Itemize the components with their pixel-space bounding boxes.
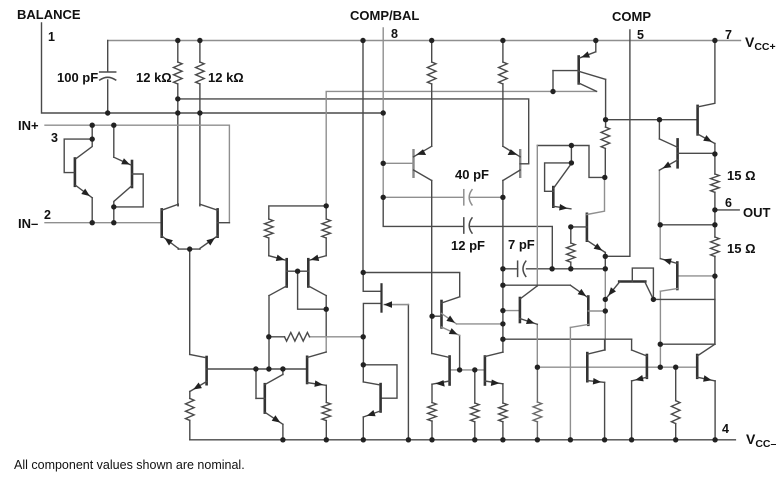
transistor Q11 diode NPN [363, 382, 380, 417]
node: VCC- rail junction x=604.6 [602, 437, 607, 442]
resistor R5 cross-coupling [285, 333, 310, 342]
node: junction (268.9,369) [266, 366, 271, 371]
capacitor C4 7 pF [517, 261, 519, 276]
node: VCC- rail junction x=570.4 [568, 437, 573, 442]
node: balance net junction x=383.2 [381, 110, 386, 115]
node: junction (459.6,369.9) [457, 367, 462, 372]
wire: JFET source down to horizontal-R node and QF node [363, 303, 381, 364]
wire: QP collector vertical down to y=344.2 node and base rail dot [659, 291, 661, 367]
wire: R16 base-node resistor lead to rail [675, 367, 677, 440]
resistor R17 base node [533, 402, 542, 422]
wire: pin 8 node stub down to 12pF line [383, 197, 464, 226]
transistor Q16 PNP [570, 285, 605, 327]
resistor R12 tail emitter [186, 398, 195, 420]
capacitor C3 12 pF [463, 218, 465, 233]
wire: Q25 emitter vertical to 15ohm top [714, 144, 716, 257]
resistor R11 15 ohm bottom [711, 237, 720, 257]
wire: x=537 vertical from y=145.5 down to Q15 collector joint [536, 146, 538, 286]
node: junction (282.9,369) [280, 366, 285, 371]
svg-text:2: 2 [44, 208, 51, 222]
node: junction (383.2,163.3) [381, 161, 386, 166]
transistor Q4 input PNP [200, 204, 230, 249]
node: VCC- rail junction x=408.4 [406, 437, 411, 442]
wire: QG emitter lead to R12 [431, 384, 433, 440]
transistor Q17 NPN [587, 350, 604, 385]
svg-text:15 Ω: 15 Ω [727, 168, 756, 183]
svg-text:IN+: IN+ [18, 118, 39, 133]
node: VCC- rail junction x=363.3 [361, 437, 366, 442]
transistor Q23 diode NPN [545, 163, 572, 211]
wire: net y=91.5 from x=326 corner to Q24 base node [326, 91, 596, 205]
node: junction (177.8,98.9) [175, 96, 180, 101]
wire: Q15prot collector vertical to base node y=119.7 [658, 120, 660, 139]
svg-text:OUT: OUT [743, 205, 771, 220]
transistor Q13 comp PNP right [503, 146, 529, 180]
wire: QK emitter feed line y=285.2 [503, 284, 570, 286]
resistor R13 QE emitter [322, 402, 331, 420]
wire: 40pF line left segment from pin8 node [383, 196, 464, 198]
svg-text:COMP/BAL: COMP/BAL [350, 8, 419, 23]
wire: JFET gate drop to VCC- rail [407, 305, 409, 440]
wire: QN emitter vertical to rail [714, 381, 716, 440]
transistor Q21 NPN [660, 259, 677, 292]
node: VCC+ rail junction x=714.9 [712, 38, 717, 43]
resistor R4 cross-pair right [322, 219, 331, 238]
wire: QN collector junction up to 15ohm bottom node [714, 299, 716, 344]
node: junction (660.2,224.8) [658, 222, 663, 227]
svg-text:IN–: IN– [18, 216, 38, 231]
svg-text:All component values shown are: All component values shown are nominal. [14, 458, 245, 472]
wire: QD collector tee up to mirror rail [282, 369, 284, 375]
wire: x=502.9 bias column from 40pF node down to QH emitter and R14 [502, 181, 504, 440]
wire: JFET drain link from x=363 node [363, 273, 380, 292]
transistor Q2 input clamp PNP [114, 157, 143, 207]
node: VCC+ rail junction x=199.9 [197, 38, 202, 43]
wire: Q15 collector vertical gap segment [536, 324, 538, 367]
resistor R3 cross-pair left [265, 219, 274, 238]
node: junction (502.9,197.3) [500, 195, 505, 200]
wire: OUT pin 6 stub [715, 209, 739, 211]
node: junction (502.9,339.2) [500, 337, 505, 342]
node: junction (714.9,209.9) [712, 207, 717, 212]
wire: Q24 base wrap down to y=91.5 [552, 71, 554, 92]
transistor QH mirror NPN [485, 352, 503, 386]
node: junction (570.8,226.9) [568, 224, 573, 229]
node: junction (570.8,268.8) [568, 266, 573, 271]
node: balance net junction x=199.9 [197, 110, 202, 115]
node: VCC+ rail junction x=177.8 [175, 38, 180, 43]
wire: R6 resistor column x=431.5 from Q12 lead to dual-emitter base and QG collector [431, 41, 433, 354]
wire: Q1 collector tie to IN+ [91, 125, 93, 139]
wire: QM collector drop from y=340 line [631, 339, 633, 350]
resistor R1 12k [174, 62, 183, 84]
wire: pin 1 BALANCE lead down and line to pin 8 (net y=113) [42, 23, 384, 113]
wire: IN- pin 2 line to Q3 base [45, 222, 162, 224]
node: junction (605.6,119.7) [603, 117, 608, 122]
node: VCC+ rail junction x=431.7 [429, 38, 434, 43]
wire: pin 8 COMP/BAL lead down to 40pF node [382, 28, 384, 197]
node: junction (297.6,271.2) [295, 269, 300, 274]
transistor Q20 sideways diode NPN [605, 268, 653, 299]
node: junction (605.3,311) [603, 308, 608, 313]
node: junction (605.3,299.4) [603, 297, 608, 302]
node: VCC- rail junction x=675.7 [673, 437, 678, 442]
node: VCC- rail junction x=474.8 [472, 437, 477, 442]
node: junction (605.3,268.8) [603, 266, 608, 271]
node: VCC+ rail junction x=502.9 [500, 38, 505, 43]
node: junction (255.9,369) [253, 366, 258, 371]
wire: x=326 down to QE collector diagonal [325, 337, 327, 352]
wire: 15ohm bottom node chain x=714.9 [714, 257, 716, 345]
transistor Q6 cross-coupled PNP [298, 255, 327, 296]
node: IN+ junction x=92.2 [90, 123, 95, 128]
transistor Q14 dual-emitter NPN [432, 297, 460, 336]
wire: QP base line [677, 275, 715, 277]
wire: QF collector stub below node [362, 365, 364, 382]
wire: Q2 collector-base node down to IN- [113, 207, 115, 223]
wire: Q15 base stub [503, 310, 520, 312]
svg-text:12 pF: 12 pF [451, 238, 485, 253]
svg-text:40 pF: 40 pF [455, 167, 489, 182]
node: junction (268.8,336.8) [266, 334, 271, 339]
node: IN+ junction x=113.8 [111, 123, 116, 128]
wire: QM emitter vertical to rail [631, 381, 633, 440]
svg-text:3: 3 [51, 131, 58, 145]
node: junction (604.8,177.4) [602, 175, 607, 180]
wire: QL QM QN base rail y=367.2 [537, 366, 697, 368]
wire: net from R1 bottom y=99 to base of Q13 (corner x=528.7) [178, 99, 529, 163]
transistor Q9 mirror NPN [307, 352, 326, 387]
svg-text:5: 5 [637, 28, 644, 42]
wire: IN+ pin 3 line [45, 125, 229, 223]
wire: VCC+ top rail from 100pF to pin 7 [108, 40, 741, 42]
wire: R7 resistor column x=502.9 rail to Q13 top lead [502, 41, 504, 147]
wire: x=660 vertical from out node down to QP emitter [659, 225, 661, 259]
svg-text:VCC+: VCC+ [745, 34, 776, 53]
wire: R15 lead from base node y=367.2 to rail [536, 367, 538, 440]
wire: 12k R2 column x=200 from rail to Q4 collector [199, 41, 201, 206]
node: junction (363.3,364.8) [361, 362, 366, 367]
wire: horizontal resistor line y=336.8 from x=269 to x=363 [269, 336, 285, 338]
wire: QG QH joined base line with lower emitter drop [450, 369, 485, 371]
wire: link from QN collector node to x=660 dot [660, 343, 715, 345]
node: balance net junction x=107.7 [105, 110, 110, 115]
transistor Q19 NPN [697, 344, 715, 382]
svg-text:7 pF: 7 pF [508, 237, 535, 252]
node: junction (571.4,162.9) [569, 160, 574, 165]
node: junction (189.7,249.1) [187, 246, 192, 251]
svg-text:1: 1 [48, 30, 55, 44]
capacitor C1 100 pF [100, 71, 116, 73]
wire: R9 emitter degeneration column x=570.9 [570, 227, 572, 269]
transistor Q15 NPN [520, 286, 537, 324]
node: junction (474.8,369.9) [472, 367, 477, 372]
wire: Q15prot emitter vertical [658, 170, 660, 225]
node: IN- junction x=92.2 [90, 220, 95, 225]
node: junction (363.2,272.5) [361, 270, 366, 275]
wire: JFET gate line and run down to VCC- rail [385, 304, 409, 306]
node: junction (502.9,268.8) [500, 266, 505, 271]
resistor R9 emitter [567, 243, 576, 262]
svg-text:100 pF: 100 pF [57, 70, 98, 85]
wire: Q24 emitter stub from rail [595, 41, 597, 52]
wire: output drive line y=340.2 from bias column to QM collector [503, 338, 632, 340]
wire: QF emitter down to rail [362, 417, 364, 440]
transistor Q26 protection NPN [659, 139, 715, 170]
node: junction (714.9,224.8) [712, 222, 717, 227]
svg-text:12 kΩ: 12 kΩ [208, 70, 244, 85]
transistor QG mirror NPN [432, 354, 450, 387]
wire: Q5 collector column down to horizontal R and mirror rail [268, 296, 270, 369]
node: junction (660.3,344.2) [658, 342, 663, 347]
node: junction (552.1,268.8) [549, 266, 554, 271]
wire: 7pF line from bias column through cap to node chain [503, 268, 605, 270]
resistor R14 QG emitter [428, 403, 437, 422]
wire: COMP pin 5 lead down to QA emitter node [605, 30, 630, 256]
svg-text:15 Ω: 15 Ω [727, 241, 756, 256]
wire: VCC- bottom rail [190, 439, 736, 441]
node: junction (363.2,336.8) [361, 334, 366, 339]
wire: QF base wrap [363, 365, 397, 398]
node: junction (675.7,367.2) [673, 365, 678, 370]
resistor R6 collector load [427, 62, 436, 84]
wire: Q23 collector-base node down link [570, 146, 572, 163]
transistor Q10 JFET [382, 284, 409, 311]
wire: left cross resistor lead down to Q5 emitter [268, 238, 270, 256]
transistor Q22 NPN [571, 177, 606, 252]
wire: QE emitter vertical to R11 [325, 385, 327, 440]
node: VCC- rail junction x=432 [429, 437, 434, 442]
node: VCC- rail junction x=502.9 [500, 437, 505, 442]
node: IN- junction x=113.8 [111, 220, 116, 225]
node: junction (537.4,367.2) [535, 365, 540, 370]
node: junction (714.9,154) [712, 151, 717, 156]
wire: Q2 emitter from IN+ [113, 125, 115, 157]
node: balance net junction x=177.8 [175, 110, 180, 115]
node: junction (605.3,256.3) [603, 254, 608, 259]
resistor R7 collector load [499, 62, 508, 84]
wire: net y=145.5 from x=537 corner over to R8 bottom node [537, 146, 605, 178]
transistor Q18 NPN [632, 350, 647, 381]
node: junction (92.2,139.1) [90, 136, 95, 141]
resistor R10 15 ohm top [711, 174, 720, 192]
svg-text:VCC–: VCC– [746, 431, 777, 450]
node: junction (553,91.5) [550, 89, 555, 94]
wire: mirror base rail y=369 from Q7 to Q9 [207, 368, 308, 370]
wire: 12pF line right segment to corner down to 7pF line [470, 226, 552, 268]
wire: Q6 collector stub into base node [325, 296, 327, 337]
svg-text:COMP: COMP [612, 9, 651, 24]
wire: Q7 emitter vertical to R10 and VCC- rail start [189, 392, 191, 440]
svg-text:4: 4 [722, 422, 729, 436]
node: junction (502.9,285.2) [500, 283, 505, 288]
node: junction (660.3,367.2) [658, 365, 663, 370]
wire: R8 column x=605 from collector node y=119.7 down through resistor to y=177.4 [604, 79, 606, 177]
wire: QK collector vertical to rail [569, 328, 571, 440]
wire: QJ diode node line left from 15ohm-bottom column [653, 298, 715, 300]
node: VCC- rail junction x=282.9 [280, 437, 285, 442]
wire: 12k R1 column x=178 from rail to Q3 collector [177, 41, 179, 206]
transistor Q8 mirror NPN [256, 375, 283, 425]
node: junction (571.4,145.5) [569, 143, 574, 148]
transistor Q5 cross-coupled PNP [269, 255, 298, 296]
node: VCC- rail junction x=537.4 [535, 437, 540, 442]
transistor Q12 comp PNP left [383, 146, 432, 180]
wire: Q3/Q4 emitter junction bar and tail down to Q7 [178, 249, 200, 354]
svg-text:8: 8 [391, 27, 398, 41]
node: junction (326.2,309.2) [324, 307, 329, 312]
wire: QD base tee up to mirror rail [255, 369, 257, 398]
wire: QA emitter vertical into 7pF node [604, 253, 606, 269]
wire: 100pF top lead from rail [107, 41, 109, 72]
node: VCC- rail junction x=631.6 [629, 437, 634, 442]
wire: out line y=224.8 from Q15prot emitter node to output column [660, 224, 715, 226]
wire: QL emitter vertical to rail [604, 382, 606, 439]
transistor Q1 input clamp NPN [64, 139, 92, 198]
resistor R18 output base [671, 401, 680, 424]
transistor Q3 input PNP [162, 204, 179, 249]
transistor Q24 top PNP [553, 51, 606, 91]
resistor R8 level shift [601, 127, 610, 149]
wire: Q5/Q6 joined bases down and over to x=326 [298, 271, 327, 309]
svg-text:6: 6 [725, 196, 732, 210]
node: junction (659.5,119.7) [657, 117, 662, 122]
transistor Q25 output NPN [698, 41, 715, 144]
node: VCC- rail junction x=715.1 [712, 437, 717, 442]
resistor R16 bias column [499, 403, 508, 422]
node: junction (432.1,316.2) [429, 314, 434, 319]
svg-text:12 kΩ: 12 kΩ [136, 70, 172, 85]
svg-text:7: 7 [725, 28, 732, 42]
wire: 100pF bottom lead to balance net [107, 80, 109, 113]
node: junction (714.9,276.1) [712, 273, 717, 278]
svg-text:BALANCE: BALANCE [17, 7, 81, 22]
wire: cross-pair top line y=205.9 [269, 206, 326, 219]
wire: QD emitter down to rail [282, 424, 284, 440]
wire: Q1 emitter down to IN- [91, 198, 93, 223]
capacitor C2 40 pF [463, 190, 465, 205]
resistor R2 12k [196, 62, 205, 84]
wire: node y=119.7 line from R8 top to Q25 base [606, 119, 698, 121]
resistor R15 base rail mid [471, 403, 480, 422]
node: junction (502.9,323.9) [500, 321, 505, 326]
node: VCC- rail junction x=326.3 [324, 437, 329, 442]
wire: dual NPN upper emitter line to bias column [457, 323, 503, 325]
node: junction (653.4,299.4) [651, 297, 656, 302]
wire: QL collector drop from y=340 line [604, 339, 606, 350]
node: VCC+ rail junction x=595.8 [593, 38, 598, 43]
wire: right cross resistor lead down to Q6 emitter [325, 206, 327, 256]
node: junction (383.2,197.3) [381, 195, 386, 200]
node: junction (502.9,310.6) [500, 308, 505, 313]
node: junction (326.2,205.9) [324, 203, 329, 208]
node: VCC+ rail junction x=363 [360, 38, 365, 43]
wire: long vertical x=363 rail to JFET drain node [362, 41, 364, 273]
wire: 40pF line right segment to Q13 collector column [470, 196, 503, 198]
node: junction (113.8,206.9) [111, 204, 116, 209]
transistor Q7 tail current source [190, 354, 207, 391]
wire: dual-emitter NPN collector link to JFET drain net [363, 273, 460, 297]
wire: high-impedance column x=605.3 from 7pF node down to QL collector [604, 269, 606, 350]
